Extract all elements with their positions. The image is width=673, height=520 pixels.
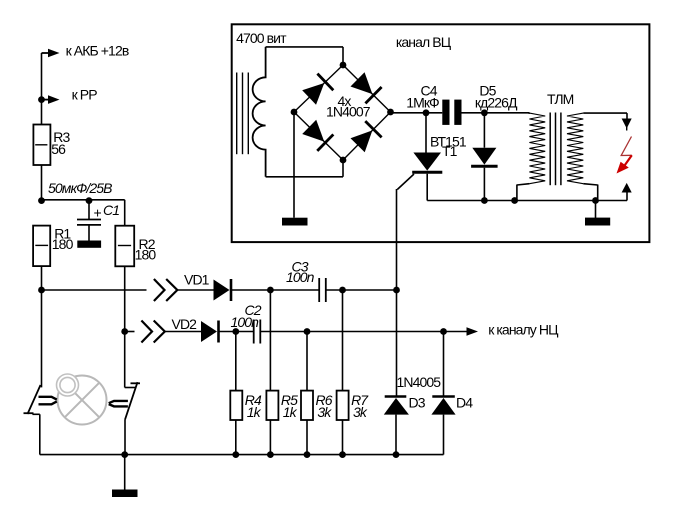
bridge diode left-bottom xyxy=(301,119,333,151)
wire node A horizontal xyxy=(42,199,125,201)
svg-text:VD1: VD1 xyxy=(184,272,210,288)
wire node B to C3 xyxy=(270,289,319,291)
diode D4 xyxy=(432,395,455,398)
svg-text:100n: 100n xyxy=(231,314,260,330)
resistor R3 xyxy=(33,125,50,166)
lamp circle xyxy=(58,376,107,425)
wire HV bottom rail xyxy=(427,200,627,202)
wire row1 to left contact xyxy=(41,290,43,387)
node D5 bottom xyxy=(481,197,488,204)
right contact blade xyxy=(125,382,138,420)
svg-text:кд226Д: кд226Д xyxy=(475,95,518,111)
wire row1 left segment xyxy=(42,289,147,291)
svg-text:1k: 1k xyxy=(283,404,298,420)
svg-text:56: 56 xyxy=(51,141,66,157)
svg-text:D4: D4 xyxy=(456,395,473,411)
right contact tick xyxy=(131,382,141,384)
capacitor C3 xyxy=(318,278,320,302)
resistor R2 xyxy=(115,226,134,267)
svg-text:канал ВЦ: канал ВЦ xyxy=(396,34,452,50)
ground under C1 xyxy=(77,241,101,248)
svg-text:100n: 100n xyxy=(286,269,315,285)
capacitor C2 xyxy=(253,320,255,344)
arrow to RR xyxy=(48,95,60,104)
bridge diamond wires xyxy=(294,65,391,160)
wire chevron to VD1 xyxy=(177,289,213,291)
node RR tap xyxy=(38,96,45,103)
coil core laminations xyxy=(236,73,238,155)
inductor L1 4700 turns xyxy=(253,47,266,177)
wire node C to R7 xyxy=(342,290,344,391)
left contact fork xyxy=(39,397,57,400)
arrow to battery xyxy=(48,49,60,58)
wire C4 to D5 node xyxy=(462,112,530,114)
wire row2 long segment xyxy=(260,331,443,333)
node bridge top xyxy=(340,62,347,69)
wire secondary top xyxy=(583,112,627,114)
node E junction xyxy=(232,328,239,335)
ground under bridge xyxy=(282,218,308,226)
node A junction xyxy=(38,197,45,204)
wire primary top xyxy=(529,112,531,114)
resistor R6 xyxy=(301,391,313,420)
node D3 bottom xyxy=(393,451,400,458)
left contact tick xyxy=(24,412,34,414)
node C1 tap xyxy=(86,197,93,204)
svg-text:1МкФ: 1МкФ xyxy=(406,95,439,111)
box channel VC xyxy=(232,24,650,242)
node C junction xyxy=(339,287,346,294)
node bridge right xyxy=(387,109,394,116)
node primary bottom xyxy=(511,197,518,204)
bridge diode bottom-right xyxy=(349,121,381,153)
wire node E to R4 xyxy=(235,332,237,391)
wire R6 tap down xyxy=(306,332,308,391)
node R7 bottom xyxy=(339,451,346,458)
right contact fork xyxy=(109,401,128,403)
wire coil bottom loop xyxy=(266,176,343,178)
connector chevrons row1 xyxy=(154,279,165,301)
svg-text:C1: C1 xyxy=(103,202,119,218)
connector chevrons row2 xyxy=(141,321,152,343)
node row2 left xyxy=(121,328,128,335)
spark gap top electrode xyxy=(626,113,628,120)
wire R4 to bottom rail xyxy=(235,420,237,455)
wire bottom rail xyxy=(40,454,444,456)
wire VD1 to node B xyxy=(231,289,270,291)
svg-text:50мкФ/25В: 50мкФ/25В xyxy=(48,180,112,196)
arrow to NC channel xyxy=(467,327,479,336)
node R5 bottom xyxy=(267,451,274,458)
node thyristor anode xyxy=(423,109,430,116)
diode VD2 xyxy=(201,321,217,342)
svg-text:ТЛМ: ТЛМ xyxy=(547,91,574,107)
svg-text:+: + xyxy=(94,205,102,221)
wire bridge left to ground xyxy=(293,112,295,218)
wire primary bottom lead xyxy=(517,184,530,185)
spark gap bottom electrode xyxy=(622,183,632,193)
transformer primary winding xyxy=(529,113,545,184)
svg-text:4700 вит: 4700 вит xyxy=(236,30,287,46)
thyristor T1 xyxy=(425,113,427,153)
spark lightning xyxy=(621,137,632,156)
wire left contact step xyxy=(32,413,39,415)
wire to battery stub xyxy=(42,52,50,54)
bridge diode top-right xyxy=(349,71,381,103)
left contact blade xyxy=(28,385,41,414)
capacitor C1 xyxy=(88,201,90,220)
svg-text:D3: D3 xyxy=(409,395,426,411)
wire right contact down xyxy=(124,420,126,455)
svg-text:3k: 3k xyxy=(353,404,368,420)
svg-text:к каналу НЦ: к каналу НЦ xyxy=(488,322,559,338)
wire VD2 to node E xyxy=(219,331,236,333)
ground HV xyxy=(585,218,610,226)
node D junction xyxy=(393,287,400,294)
wire HV ground lead xyxy=(595,201,597,219)
wire bridge to C4 xyxy=(391,112,443,114)
wire R5 to bottom rail xyxy=(269,420,271,455)
transformer secondary winding xyxy=(567,113,583,184)
node row1 left xyxy=(38,287,45,294)
wire ground lead xyxy=(124,455,126,490)
pilot lamp small circle xyxy=(57,374,79,396)
svg-text:VD2: VD2 xyxy=(172,316,198,332)
wire D3 to bottom rail xyxy=(395,415,397,455)
wire row2 left segment xyxy=(125,331,135,333)
transformer core xyxy=(549,113,551,186)
resistor R4 xyxy=(230,391,242,420)
node bridge bottom xyxy=(340,157,347,164)
lamp cross xyxy=(65,383,100,418)
svg-text:3k: 3k xyxy=(317,404,332,420)
node R4 bottom xyxy=(232,451,239,458)
node R6 tap xyxy=(304,328,311,335)
node D5 top xyxy=(481,109,488,116)
wire R3 to node A xyxy=(41,165,43,201)
svg-text:1N4007: 1N4007 xyxy=(326,104,371,120)
wire R1 to row1 xyxy=(41,266,43,290)
wire node B to R5 xyxy=(269,290,271,391)
diode VD1 xyxy=(214,280,230,301)
svg-text:180: 180 xyxy=(135,247,157,263)
svg-text:к АКБ +12в: к АКБ +12в xyxy=(66,42,129,58)
node B junction xyxy=(267,287,274,294)
wire output node to D4 cathode xyxy=(443,332,445,397)
svg-text:180: 180 xyxy=(52,236,74,252)
ground main xyxy=(112,490,138,498)
wire D4 to bottom rail xyxy=(443,415,445,455)
svg-text:1k: 1k xyxy=(247,404,262,420)
wire R7 to bottom rail xyxy=(342,420,344,455)
wire secondary bottom lead xyxy=(583,184,597,185)
node ground tap xyxy=(121,451,128,458)
wire R2 to right contact xyxy=(124,332,126,388)
node output junction xyxy=(440,328,447,335)
wire R6 to bottom rail xyxy=(306,420,308,455)
node bridge left xyxy=(291,109,298,116)
capacitor C4 xyxy=(442,100,449,125)
resistor R7 xyxy=(337,391,349,420)
wire node D to D3 cathode xyxy=(396,290,398,397)
wire node C to node D xyxy=(343,289,397,291)
wire +12V feed vertical xyxy=(41,53,43,125)
svg-text:1N4005: 1N4005 xyxy=(397,374,442,390)
diode D3 xyxy=(385,395,407,398)
diode D5 xyxy=(483,113,485,148)
svg-text:к РР: к РР xyxy=(72,87,98,103)
wire R2 down to row2 xyxy=(124,266,126,331)
wire coil top loop xyxy=(266,46,343,48)
bridge diode left-top xyxy=(301,74,333,106)
node ground HV tap xyxy=(592,197,599,204)
wire node E to C2 xyxy=(236,331,254,333)
node R6 bottom xyxy=(304,451,311,458)
wire thyristor gate xyxy=(397,174,414,190)
svg-text:Т1: Т1 xyxy=(442,143,458,159)
wire C3 to node C xyxy=(326,289,343,291)
wire chevron to VD2 xyxy=(165,331,201,333)
wire output stub xyxy=(444,331,468,333)
resistor R1 xyxy=(33,226,50,267)
wire RR stub xyxy=(42,99,50,101)
resistor R5 xyxy=(266,391,278,420)
